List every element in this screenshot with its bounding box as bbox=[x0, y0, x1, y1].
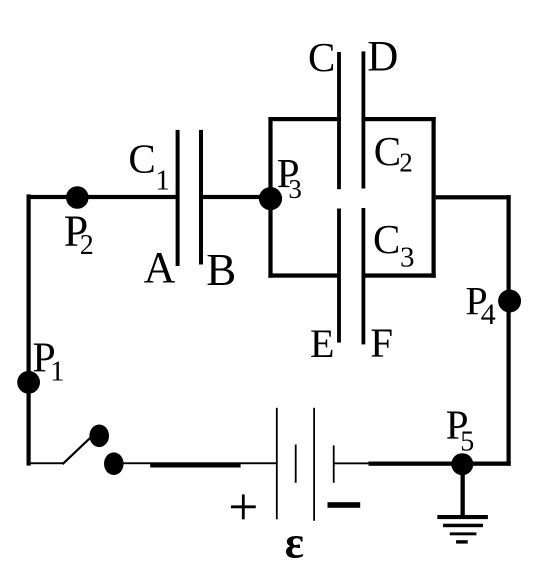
capacitor C1 right plate (B) bbox=[199, 130, 203, 265]
svg-text:C: C bbox=[374, 128, 401, 174]
label P4 bbox=[465, 278, 495, 331]
wire: box bottom edge right segment bbox=[362, 273, 436, 277]
svg-text:D: D bbox=[367, 34, 398, 81]
battery short plate 2 bbox=[333, 445, 335, 482]
node P3 bbox=[259, 187, 282, 210]
ground stem bbox=[461, 464, 465, 517]
wire: P5 to right corner bbox=[462, 462, 511, 466]
svg-text:3: 3 bbox=[288, 174, 302, 204]
label P1 bbox=[32, 335, 64, 387]
battery long plate 1 bbox=[276, 408, 278, 520]
svg-text:2: 2 bbox=[399, 147, 413, 177]
wire: box bottom edge left segment bbox=[268, 273, 340, 277]
svg-text:C: C bbox=[128, 135, 155, 181]
wire: box right edge bbox=[432, 117, 436, 278]
wire: box top edge left segment bbox=[268, 117, 341, 121]
svg-text:B: B bbox=[206, 245, 236, 295]
label P3 bbox=[277, 150, 302, 204]
wire: box left edge bbox=[268, 117, 272, 278]
switch blade bbox=[63, 438, 91, 465]
label - (battery negative) bbox=[328, 502, 361, 508]
node P1 bbox=[17, 371, 40, 394]
capacitor C3 left plate (E) bbox=[337, 209, 341, 343]
capacitor C1 left plate (A) bbox=[176, 130, 180, 266]
label C1 bbox=[128, 135, 170, 196]
switch contact upper bbox=[89, 425, 109, 448]
svg-text:5: 5 bbox=[460, 426, 474, 457]
label C2 bbox=[374, 128, 413, 178]
svg-text:C: C bbox=[373, 216, 400, 262]
capacitor C3 right plate (F) bbox=[362, 208, 366, 344]
label C3 bbox=[373, 216, 415, 274]
ground bar 2 bbox=[443, 524, 483, 528]
svg-text:1: 1 bbox=[155, 165, 170, 197]
wire: thick overlay segment left bbox=[150, 463, 240, 467]
wire: box top edge right segment bbox=[362, 117, 436, 121]
node P5 bbox=[451, 453, 473, 475]
svg-text:1: 1 bbox=[50, 355, 65, 387]
node P4 bbox=[498, 290, 521, 313]
ground bar 3 bbox=[450, 532, 477, 535]
battery short plate 1 bbox=[295, 445, 297, 483]
wire: switch to battery thin bbox=[123, 462, 277, 464]
wire: bottom-left thin segment bbox=[27, 462, 64, 464]
wire: right vertical branch bbox=[507, 195, 511, 466]
svg-text:C: C bbox=[308, 34, 335, 80]
wire: box to right branch bbox=[436, 195, 511, 199]
capacitor C2 left plate (C) bbox=[337, 52, 341, 189]
battery long plate 2 bbox=[313, 408, 315, 521]
svg-text:2: 2 bbox=[80, 230, 94, 261]
wire: left vertical branch (P1) bbox=[27, 194, 31, 465]
label + (battery positive) bbox=[231, 494, 256, 519]
wire: C1 to node P3 bbox=[203, 195, 271, 199]
wire: top horizontal P2 to C1 bbox=[27, 195, 177, 199]
wire: thick segment battery to P5 bbox=[369, 462, 463, 466]
wire: battery to P5 thin bbox=[334, 462, 451, 464]
label P5 bbox=[446, 402, 474, 458]
svg-text:A: A bbox=[144, 243, 176, 292]
svg-text:F: F bbox=[370, 320, 393, 366]
capacitor C2 right plate (D) bbox=[362, 51, 366, 188]
label P2 bbox=[64, 207, 94, 261]
svg-text:3: 3 bbox=[400, 242, 415, 274]
switch contact lower bbox=[104, 452, 124, 475]
node P2 bbox=[66, 186, 89, 209]
svg-text:ε: ε bbox=[285, 517, 304, 567]
ground bar 4 bbox=[456, 540, 468, 543]
ground bar 1 bbox=[437, 515, 488, 519]
svg-text:E: E bbox=[310, 321, 334, 366]
svg-text:4: 4 bbox=[481, 298, 496, 331]
